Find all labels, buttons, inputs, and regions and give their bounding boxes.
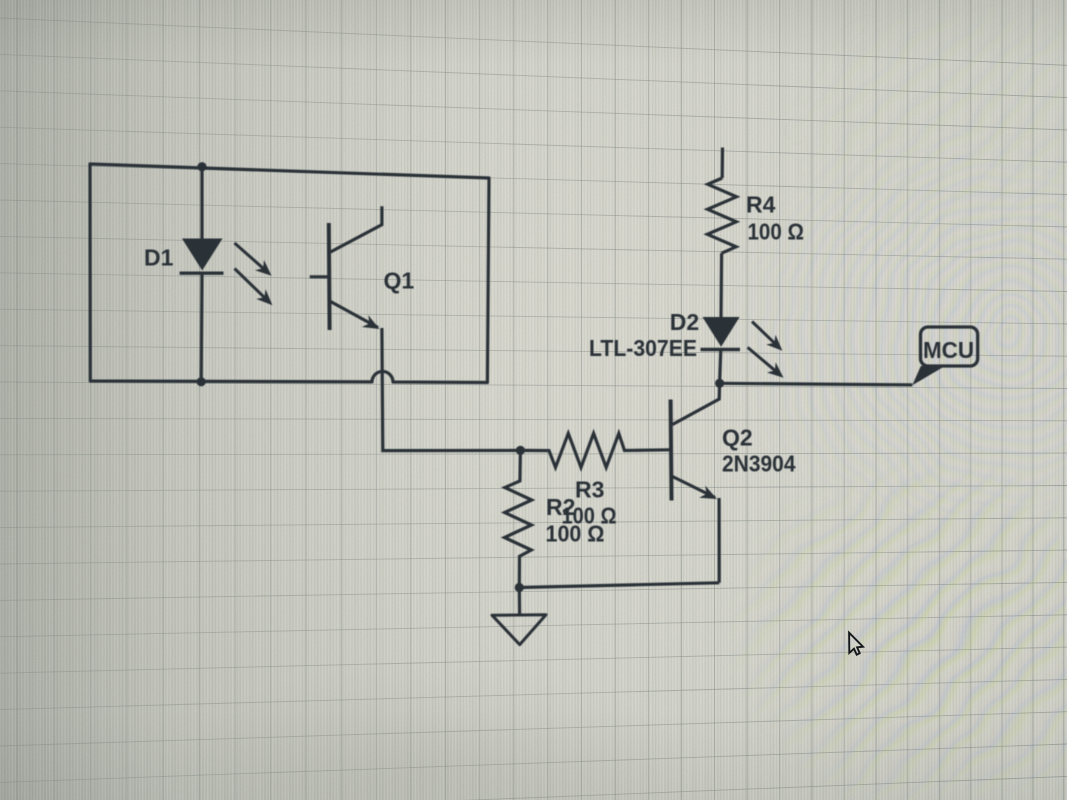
node ground junction (515, 583, 524, 592)
wire D1 anode (200, 167, 203, 240)
resistor R2 (505, 450, 532, 587)
svg-text:100 Ω: 100 Ω (546, 521, 605, 547)
optocoupler U1 body (90, 164, 489, 383)
svg-text:R3: R3 (575, 477, 604, 503)
svg-text:D1: D1 (144, 245, 174, 271)
transistor Q1 base bar (327, 223, 332, 330)
svg-text:Q1: Q1 (384, 268, 415, 294)
Q1 collector (331, 206, 382, 252)
svg-text:100 Ω: 100 Ω (748, 219, 805, 245)
transistor Q2 base bar (669, 400, 674, 501)
wire emitter to ground junction (519, 583, 719, 588)
wire to MCU (720, 383, 913, 385)
diode D1 (LED) (182, 239, 223, 271)
wire R4 top (721, 148, 724, 179)
Q2 emitter (673, 477, 716, 498)
wire D2 cathode (720, 350, 721, 384)
node D1 anode junction (197, 162, 206, 171)
node D1 cathode junction (197, 377, 206, 386)
D1 emission arrow 2 (235, 269, 273, 306)
resistor R3 (520, 433, 669, 467)
D2 emission arrow 1 (752, 322, 782, 351)
ground (518, 588, 521, 616)
Q1 emitter (331, 302, 379, 328)
net flag MCU tail (912, 366, 945, 385)
Q1 base stub (310, 275, 329, 278)
wire D1 cathode (200, 273, 204, 382)
mouse cursor (849, 633, 863, 655)
wire Q1 emitter down (382, 328, 521, 451)
svg-text:LTL-307EE: LTL-307EE (589, 335, 697, 361)
diode D2 (LED) (703, 317, 740, 347)
Q2 collector (673, 383, 720, 424)
wire R4 to D2 (719, 253, 723, 317)
D2 emission arrow 2 (748, 347, 784, 377)
svg-text:2N3904: 2N3904 (722, 451, 796, 477)
svg-text:MCU: MCU (923, 337, 974, 363)
wire Q2 emitter down (717, 498, 720, 583)
resistor R4 (707, 178, 736, 253)
svg-text:R4: R4 (746, 192, 776, 218)
node D2/Q2/MCU junction (715, 379, 724, 388)
node R2/R3 junction (516, 446, 525, 455)
svg-text:Q2: Q2 (722, 425, 753, 451)
svg-text:D2: D2 (670, 309, 699, 335)
D1 emission arrow 1 (235, 243, 272, 276)
net flag MCU box (921, 327, 978, 366)
